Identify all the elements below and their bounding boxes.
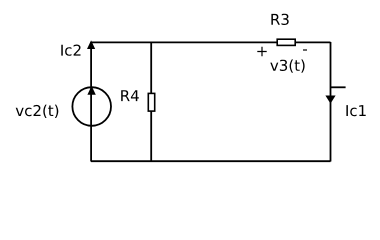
label R4 [121,90,139,101]
label Ic1 [346,105,365,116]
label minus polarity [303,49,307,50]
current arrow Ic1 tick [331,86,346,88]
resistor R4 body [148,93,154,111]
label Ic2 [61,45,80,56]
label v3(t) [270,59,304,72]
current arrow Ic1 arrowhead [326,96,334,103]
current arrow Ic2 arrowhead [88,42,95,49]
wire left branch [90,42,92,162]
wire right branch [330,42,332,162]
label R3 [271,14,288,25]
wire bottom horizontal [91,160,331,162]
resistor R3 body [277,39,295,45]
label plus polarity [257,47,266,56]
wire top horizontal [91,41,331,43]
current source vc2 circle [72,87,111,126]
wire middle branch [150,42,152,162]
label vc2(t) [16,105,59,118]
current source vc2 internal arrowhead [88,87,95,94]
